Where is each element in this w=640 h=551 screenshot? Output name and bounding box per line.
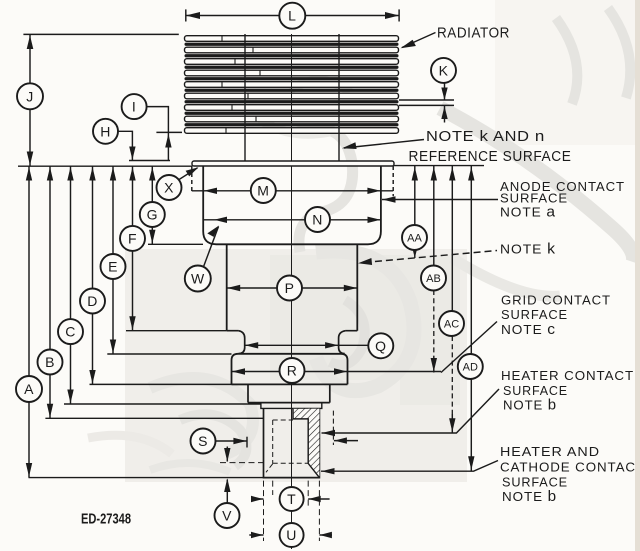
dimension AA line bbox=[414, 166, 416, 258]
mid cylinder bottom line bbox=[227, 330, 358, 332]
stem hatched chamfer bbox=[308, 463, 319, 477]
anode contact leader line bbox=[382, 199, 498, 201]
circle S bbox=[191, 429, 216, 454]
svg-text:GRID CONTACT: GRID CONTACT bbox=[501, 293, 611, 308]
radiator fin dark 5 bbox=[185, 89, 399, 92]
svg-text:SURFACE: SURFACE bbox=[500, 191, 568, 206]
radiator fin dark 1 bbox=[185, 43, 399, 46]
radiator fin bar 4 bbox=[185, 70, 399, 76]
level line E bbox=[107, 353, 231, 355]
S arrow bbox=[233, 438, 246, 444]
dimension AC line bbox=[451, 166, 453, 336]
L tick right bbox=[398, 9, 400, 21]
svg-text:T: T bbox=[287, 491, 296, 507]
neck left side bbox=[238, 331, 244, 354]
radiator fin dark 7 bbox=[185, 112, 399, 115]
svg-text:E: E bbox=[108, 259, 118, 275]
circle K bbox=[431, 58, 456, 83]
annotation texts bbox=[81, 26, 640, 528]
svg-text:NOTE b: NOTE b bbox=[502, 488, 557, 505]
grid contact ring bbox=[232, 354, 348, 385]
ring bottom line bbox=[232, 383, 348, 385]
N arrows bbox=[214, 217, 227, 223]
radiator fin bar 8 bbox=[185, 116, 399, 122]
I arrow bbox=[165, 134, 171, 148]
svg-text:AA: AA bbox=[407, 233, 422, 245]
arrowheads bbox=[26, 12, 475, 538]
stem lip bbox=[261, 403, 322, 409]
circle C bbox=[58, 319, 83, 344]
circle M bbox=[251, 178, 276, 203]
anode body outline bbox=[203, 166, 381, 244]
circle D bbox=[80, 289, 105, 314]
circle E bbox=[101, 254, 126, 279]
stem hatched top band bbox=[293, 409, 319, 419]
svg-text:R: R bbox=[287, 363, 298, 379]
dimension G line bbox=[151, 166, 153, 244]
circle P bbox=[277, 276, 302, 301]
inner bottom arrow line bbox=[226, 447, 228, 462]
heater leader arrow bbox=[322, 430, 335, 436]
radiator fin bar 6 bbox=[185, 93, 399, 99]
dimension U line bbox=[249, 534, 332, 536]
bottom fin tick line bbox=[156, 131, 182, 133]
hidden line below flange left corner bbox=[191, 166, 193, 192]
dimension T line bbox=[251, 498, 329, 500]
P arrows bbox=[227, 285, 240, 291]
radiator fin dark 3 bbox=[185, 66, 399, 69]
svg-text:N: N bbox=[312, 212, 323, 228]
note k n leader arrow bbox=[342, 142, 357, 149]
circle V bbox=[215, 503, 240, 528]
svg-text:RADIATOR: RADIATOR bbox=[437, 26, 510, 42]
V up arrow bbox=[224, 478, 230, 492]
stem bore inner edge bbox=[293, 409, 319, 478]
AC bottom arrow bbox=[449, 418, 455, 432]
level line A bbox=[29, 477, 264, 479]
circle Q bbox=[368, 333, 393, 358]
ring bottom block bbox=[248, 384, 330, 402]
dimension M line bbox=[192, 190, 393, 192]
inner-left bore extension dash bbox=[272, 481, 274, 495]
S right extension tick bbox=[332, 411, 334, 445]
radiator fin bar 9 bbox=[185, 128, 399, 134]
circle T bbox=[280, 487, 304, 511]
dimension K stack bbox=[444, 83, 446, 100]
top extension line of radiator bbox=[23, 33, 178, 35]
heater contact leader bbox=[322, 389, 500, 433]
dimension F line bbox=[132, 166, 134, 331]
note k leader dashed bbox=[364, 251, 497, 263]
svg-text:HEATER CONTACT: HEATER CONTACT bbox=[501, 368, 634, 383]
Q arrows bbox=[245, 342, 258, 348]
svg-text:NOTE k AND n: NOTE k AND n bbox=[426, 128, 545, 145]
flange / reference surface plate bbox=[192, 161, 394, 166]
svg-text:AC: AC bbox=[444, 319, 459, 331]
svg-text:G: G bbox=[147, 207, 158, 223]
right page-edge strip bbox=[635, 0, 640, 551]
centerline bbox=[291, 34, 293, 549]
circle AB bbox=[421, 266, 446, 291]
svg-text:AB: AB bbox=[426, 273, 441, 285]
level line B bbox=[45, 417, 263, 419]
dimension Q line bbox=[245, 344, 368, 346]
grid mid cylinder bbox=[227, 244, 358, 330]
svg-text:CATHODE CONTACT: CATHODE CONTACT bbox=[500, 460, 640, 475]
dimension E line bbox=[112, 166, 114, 354]
M arrows bbox=[204, 188, 217, 194]
dimension J line bbox=[29, 34, 31, 166]
reference surface line right bbox=[394, 165, 484, 167]
svg-text:K: K bbox=[439, 62, 449, 78]
svg-text:SURFACE: SURFACE bbox=[501, 307, 568, 322]
dimension A line bbox=[28, 166, 30, 477]
AD bottom arrow bbox=[468, 456, 474, 470]
svg-text:SURFACE: SURFACE bbox=[502, 475, 568, 490]
heater cathode leader bbox=[321, 461, 498, 472]
dimension V line bbox=[226, 480, 228, 504]
dimension R line bbox=[232, 371, 442, 373]
dimension C line bbox=[70, 166, 72, 404]
ref-line up arrows A-G bbox=[26, 167, 32, 181]
X leader bbox=[178, 168, 198, 181]
J arrows bbox=[27, 35, 34, 49]
stem hatched right wall bbox=[308, 409, 319, 464]
flange top stub line bbox=[129, 160, 170, 162]
svg-text:W: W bbox=[191, 271, 205, 287]
reference surface line left bbox=[18, 165, 192, 167]
svg-text:SURFACE: SURFACE bbox=[503, 383, 568, 398]
scanner gray wash lower-middle bbox=[125, 249, 467, 482]
X leader arrow bbox=[186, 167, 199, 176]
dimension B line bbox=[49, 166, 51, 418]
circle B bbox=[38, 350, 63, 375]
note k arrow bbox=[358, 258, 372, 265]
circle X bbox=[157, 175, 182, 200]
radiator fin dark 4 bbox=[185, 77, 399, 80]
neck right side bbox=[339, 331, 346, 354]
heater cathode leader arrow bbox=[321, 468, 334, 474]
note k and n leader bbox=[344, 140, 424, 149]
circle I bbox=[122, 94, 147, 119]
radiator fin dark 2 bbox=[185, 54, 399, 57]
radiator fin dark 6 bbox=[185, 100, 399, 103]
dimension D line bbox=[92, 166, 94, 384]
circle H bbox=[93, 119, 118, 144]
radiator core right edge bbox=[338, 34, 340, 161]
svg-text:P: P bbox=[285, 280, 295, 296]
svg-text:X: X bbox=[164, 180, 174, 196]
hidden line below flange right corner bbox=[392, 166, 394, 196]
circle F bbox=[120, 226, 145, 251]
U extension dash right bbox=[318, 481, 320, 541]
dimension circles bbox=[16, 3, 483, 547]
svg-text:Q: Q bbox=[375, 338, 386, 354]
K arrows bbox=[441, 88, 447, 101]
svg-text:D: D bbox=[87, 293, 98, 309]
inner bottom dashed level bbox=[220, 462, 264, 464]
grid contact leader diagonal bbox=[441, 322, 497, 373]
svg-text:L: L bbox=[288, 8, 296, 24]
heater stem outline bbox=[264, 408, 320, 477]
radiator fin bar 2 bbox=[185, 47, 399, 53]
svg-text:NOTE a: NOTE a bbox=[500, 204, 556, 221]
T U extension dashes left bbox=[263, 481, 265, 541]
dimension N line bbox=[204, 219, 381, 221]
radiator fin dark 8 bbox=[185, 123, 399, 126]
dimension L line bbox=[186, 15, 399, 17]
radiator core left edge bbox=[244, 34, 246, 161]
svg-text:I: I bbox=[132, 99, 136, 115]
level line G bbox=[148, 243, 203, 245]
radiator leader bbox=[402, 33, 436, 48]
circle U bbox=[280, 523, 304, 547]
inner bottom down arrow bbox=[224, 448, 230, 462]
R arrows bbox=[232, 368, 245, 374]
S extension tick bbox=[246, 437, 248, 448]
circle L bbox=[279, 3, 305, 29]
svg-text:REFERENCE SURFACE: REFERENCE SURFACE bbox=[409, 149, 572, 165]
S right arrow bbox=[334, 437, 347, 443]
circle AD bbox=[458, 354, 483, 379]
stem inner hidden lines bbox=[266, 420, 308, 472]
L tick left bbox=[185, 9, 187, 21]
svg-text:A: A bbox=[24, 381, 34, 397]
radiator fin bar 7 bbox=[185, 105, 399, 111]
dimension I elbow bbox=[147, 107, 169, 161]
level line F bbox=[126, 330, 227, 332]
circle letters bbox=[24, 8, 478, 543]
circle AA bbox=[402, 225, 427, 250]
U arrows bbox=[251, 532, 263, 538]
bottom arrows A-G bbox=[26, 463, 32, 477]
AA bottom arrow bbox=[412, 247, 418, 258]
svg-text:J: J bbox=[26, 88, 34, 104]
circle G bbox=[140, 202, 165, 227]
radiator leader arrow bbox=[401, 40, 416, 48]
H arrow bbox=[129, 147, 135, 160]
level line D bbox=[90, 383, 249, 385]
L arrows bbox=[186, 12, 200, 19]
AB bottom arrow bbox=[431, 358, 437, 372]
radiator fin bar 5 bbox=[185, 82, 399, 88]
svg-text:ED-27348: ED-27348 bbox=[81, 511, 131, 528]
svg-text:S: S bbox=[198, 433, 208, 449]
svg-text:NOTE b: NOTE b bbox=[503, 397, 557, 414]
dimension S leader bbox=[216, 440, 248, 442]
circle N bbox=[305, 207, 330, 232]
anode leader arrow bbox=[382, 196, 395, 202]
dimension AD line bbox=[470, 166, 472, 471]
circle W bbox=[185, 266, 211, 292]
level line C bbox=[64, 403, 261, 405]
dimension H elbow bbox=[118, 131, 132, 160]
fin segment ticks bbox=[222, 36, 260, 134]
svg-text:H: H bbox=[100, 123, 111, 139]
svg-text:NOTE c: NOTE c bbox=[501, 321, 556, 338]
svg-text:U: U bbox=[286, 527, 297, 543]
T arrows bbox=[251, 496, 263, 502]
svg-text:NOTE k: NOTE k bbox=[500, 241, 556, 258]
T extension dash inner bbox=[307, 481, 309, 506]
dimension S right arrow line bbox=[334, 440, 358, 442]
svg-text:HEATER AND: HEATER AND bbox=[500, 444, 600, 459]
svg-text:AD: AD bbox=[463, 362, 478, 374]
svg-text:M: M bbox=[257, 183, 269, 199]
W leader arrow bbox=[207, 226, 219, 237]
W leader bbox=[204, 227, 219, 267]
AA top arrow + AB AC AD top arrows bbox=[412, 167, 418, 181]
svg-text:F: F bbox=[128, 230, 137, 246]
circle AC bbox=[439, 311, 464, 336]
radiator fin bar 1 bbox=[185, 36, 399, 42]
svg-text:V: V bbox=[222, 508, 232, 524]
circle R bbox=[280, 358, 305, 383]
circle J bbox=[17, 83, 43, 109]
dimension AB line bbox=[433, 166, 435, 290]
svg-text:B: B bbox=[45, 354, 55, 370]
dimension P line bbox=[227, 287, 358, 289]
radiator fin bar 3 bbox=[185, 59, 399, 65]
svg-text:C: C bbox=[65, 324, 76, 340]
circle A bbox=[16, 376, 42, 402]
